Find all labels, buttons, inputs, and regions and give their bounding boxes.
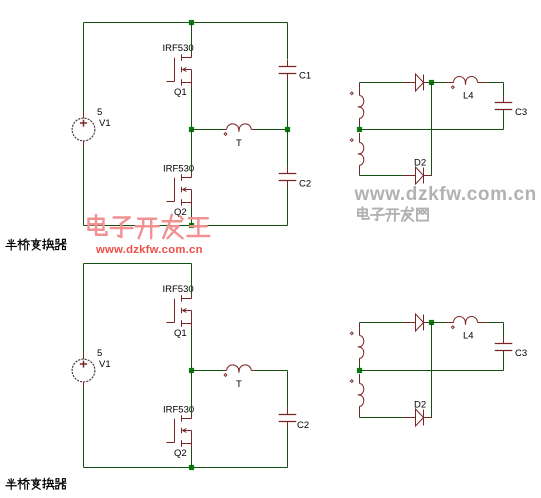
transformer T polarity dot (bottom) bbox=[224, 374, 227, 377]
junction bottom rail (bottom) bbox=[189, 465, 194, 470]
inductor L4 lead right (bottom) bbox=[478, 322, 488, 324]
wire D2 cathode rail vertical (bottom) bbox=[431, 323, 433, 418]
svg-text:Q1: Q1 bbox=[174, 328, 187, 339]
wire right rail midpoint down (bottom) bbox=[287, 371, 289, 408]
wire midpoint to transformer (top) bbox=[192, 129, 225, 131]
wire Q1 source to midpoint (top) bbox=[191, 87, 193, 130]
wire winding2 to D2 (top) bbox=[360, 175, 405, 177]
transformer secondary winding 1 (bottom) bbox=[359, 323, 361, 336]
wire right rail to C3 (top) bbox=[503, 83, 505, 97]
svg-text:C2: C2 bbox=[297, 420, 309, 431]
svg-text:L4: L4 bbox=[463, 331, 474, 342]
winding 2 polarity dot (top) bbox=[350, 139, 353, 142]
capacitor C3 (bottom) bbox=[495, 343, 513, 345]
svg-text:T: T bbox=[236, 138, 242, 149]
wire C3 to output return (bottom) bbox=[503, 351, 505, 371]
wire top rail (bottom) bbox=[84, 263, 192, 265]
diode D2 (bottom) bbox=[404, 417, 416, 419]
wire winding1 to rectifier diode (top) bbox=[360, 82, 405, 84]
wire Q1 drain to top (bottom) bbox=[191, 264, 193, 295]
transformer secondary winding 2 (bottom) bbox=[359, 374, 361, 384]
diode D2 (top) bbox=[404, 175, 416, 177]
transistor Q1 IRF530 (top) bbox=[174, 58, 176, 82]
title 半桥变换器 bottom bbox=[6, 479, 17, 490]
transformer T primary lead right (bottom) bbox=[251, 370, 254, 372]
wire midpoint to transformer (bottom) bbox=[192, 370, 225, 372]
wire L4 to right rail (top) bbox=[487, 82, 504, 84]
svg-text:IRF530: IRF530 bbox=[163, 43, 194, 54]
voltage source V1 (top) bbox=[72, 118, 95, 141]
transistor Q2 IRF530 (bottom) bbox=[174, 419, 176, 443]
wire junction to L4 (bottom) bbox=[432, 322, 447, 324]
inductor L4 polarity dot (bottom) bbox=[451, 326, 454, 329]
junction top rail (top) bbox=[189, 20, 194, 25]
junction bottom rail (top) bbox=[189, 223, 194, 228]
wire L4 to right rail (bottom) bbox=[487, 322, 504, 324]
svg-text:V1: V1 bbox=[99, 359, 111, 370]
svg-text:www.dzkfw.com.cn: www.dzkfw.com.cn bbox=[354, 184, 537, 205]
wire winding1 to center tap (top) bbox=[359, 125, 361, 130]
wire bottom rail (top) bbox=[84, 225, 288, 227]
wire junction to L4 (top) bbox=[432, 82, 447, 84]
svg-text:T: T bbox=[236, 379, 242, 390]
svg-text:C3: C3 bbox=[515, 107, 527, 118]
wire right rail top (top) bbox=[287, 23, 289, 60]
junction center tap (bottom) bbox=[357, 368, 362, 373]
transformer T primary lead left (bottom) bbox=[224, 370, 227, 372]
wire output return middle (bottom) bbox=[360, 370, 504, 372]
transformer T primary coil (top) bbox=[227, 124, 252, 132]
transformer T primary lead left (top) bbox=[224, 129, 227, 131]
diode output rectifier top (top) bbox=[404, 82, 416, 84]
wire transformer to right rail (bottom) bbox=[255, 370, 288, 372]
wire right rail C2 to bottom (top) bbox=[287, 187, 289, 226]
diode output rectifier top (bottom) bbox=[404, 322, 416, 324]
junction rectifier output (bottom) bbox=[429, 320, 434, 325]
inductor L4 polarity dot (top) bbox=[451, 86, 454, 89]
watermark gray 电子开发网 bbox=[358, 207, 369, 219]
transformer T primary lead right (top) bbox=[251, 129, 254, 131]
winding 1 polarity dot (bottom) bbox=[350, 332, 353, 335]
wire right rail C1 to midpoint (top) bbox=[287, 80, 289, 130]
junction rectifier output (top) bbox=[429, 80, 434, 85]
wire left rail upper (bottom) bbox=[83, 264, 85, 354]
wire C3 to output return (top) bbox=[503, 110, 505, 130]
svg-text:Q2: Q2 bbox=[174, 448, 187, 459]
svg-text:Q1: Q1 bbox=[174, 87, 187, 98]
capacitor C1 (top) bbox=[279, 66, 297, 68]
inductor L4 lead left (bottom) bbox=[446, 322, 454, 324]
svg-text:IRF530: IRF530 bbox=[163, 163, 194, 174]
wire winding2 to D2 (bottom) bbox=[360, 417, 405, 419]
svg-text:V1: V1 bbox=[99, 118, 111, 129]
svg-text:C1: C1 bbox=[299, 71, 311, 82]
svg-text:D2: D2 bbox=[414, 400, 426, 411]
inductor L4 coil (top) bbox=[454, 77, 478, 85]
transistor Q2 IRF530 (top) bbox=[174, 178, 176, 202]
wire right rail midpoint down (top) bbox=[287, 130, 289, 167]
svg-text:D2: D2 bbox=[414, 158, 426, 169]
junction center tap (top) bbox=[357, 127, 362, 132]
wire transformer to right rail (top) bbox=[255, 129, 288, 131]
transformer secondary winding 1 (top) bbox=[359, 83, 361, 96]
svg-text:C3: C3 bbox=[515, 348, 527, 359]
wire left rail lower (top) bbox=[83, 147, 85, 226]
capacitor C2 (top) bbox=[279, 173, 297, 175]
wire bottom rail (bottom) bbox=[84, 467, 288, 469]
winding 2 polarity dot (bottom) bbox=[350, 380, 353, 383]
svg-text:IRF530: IRF530 bbox=[163, 284, 194, 295]
svg-text:5: 5 bbox=[97, 107, 102, 118]
transformer secondary winding 2 (top) bbox=[359, 133, 361, 143]
wire top rail (top) bbox=[84, 22, 288, 24]
wire Q1 source to midpoint (bottom) bbox=[191, 328, 193, 371]
wire midpoint to Q2 drain (top) bbox=[191, 130, 193, 174]
svg-text:IRF530: IRF530 bbox=[163, 404, 194, 415]
winding 1 polarity dot (top) bbox=[350, 92, 353, 95]
wire winding1 to center tap (bottom) bbox=[359, 365, 361, 371]
wire D2 cathode rail vertical (top) bbox=[431, 83, 433, 176]
junction right rail midpoint (top) bbox=[285, 127, 290, 132]
watermark red calligraphy 电子开发王 bbox=[89, 215, 107, 235]
wire right rail C2 to bottom (bottom) bbox=[287, 428, 289, 468]
inductor L4 lead left (top) bbox=[446, 82, 454, 84]
wire Q2 source to bottom rail (bottom) bbox=[191, 448, 193, 468]
wire winding1 to rectifier diode (bottom) bbox=[360, 322, 405, 324]
svg-text:L4: L4 bbox=[463, 91, 474, 102]
wire right rail to C3 (bottom) bbox=[503, 323, 505, 338]
wire left rail lower (bottom) bbox=[83, 388, 85, 468]
wire left rail upper (top) bbox=[83, 23, 85, 113]
inductor L4 lead right (top) bbox=[478, 82, 488, 84]
wire output return middle (top) bbox=[360, 129, 504, 131]
svg-text:www.dzkfw.com.cn: www.dzkfw.com.cn bbox=[95, 244, 203, 256]
junction half-bridge midpoint (top) bbox=[189, 127, 194, 132]
junction half-bridge midpoint (bottom) bbox=[189, 368, 194, 373]
wire Q2 source to bottom rail (top) bbox=[191, 207, 193, 226]
capacitor C3 (top) bbox=[495, 102, 513, 104]
wire midpoint to Q2 drain (bottom) bbox=[191, 371, 193, 415]
inductor L4 coil (bottom) bbox=[454, 317, 478, 325]
svg-text:5: 5 bbox=[97, 348, 102, 359]
voltage source V1 (bottom) bbox=[72, 359, 95, 382]
svg-text:C2: C2 bbox=[299, 178, 311, 189]
transistor Q1 IRF530 (bottom) bbox=[174, 299, 176, 323]
wire Q1 drain to top (top) bbox=[191, 23, 193, 54]
title 半桥变换器 top bbox=[6, 239, 17, 250]
transformer T primary coil (bottom) bbox=[227, 365, 252, 373]
transformer T polarity dot (top) bbox=[224, 133, 227, 136]
capacitor C2 (bottom) bbox=[279, 414, 297, 416]
